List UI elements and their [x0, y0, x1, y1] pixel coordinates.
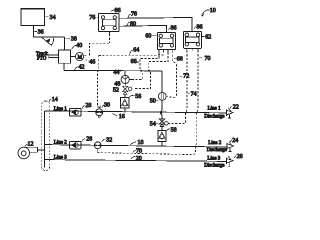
svg-text:62: 62 [205, 35, 211, 41]
svg-text:42: 42 [79, 65, 85, 71]
svg-text:32: 32 [106, 137, 112, 143]
label 70 (top) [199, 56, 211, 62]
label 30 [102, 103, 110, 109]
svg-text:Line 3: Line 3 [207, 157, 220, 162]
label 32 [102, 137, 113, 143]
svg-text:Line 2: Line 2 [54, 141, 67, 146]
blower 12 [18, 147, 44, 159]
label 56 [130, 94, 142, 100]
label 86 (box 62) [194, 24, 202, 30]
Line 3 pipe 20 [44, 160, 226, 162]
label 62 [202, 35, 212, 41]
discharge valve 26 [227, 156, 234, 166]
label 28 line 2 [82, 137, 92, 143]
svg-text:10: 10 [210, 8, 216, 14]
svg-text:54: 54 [150, 122, 156, 128]
Line 3 discharge labels [204, 157, 225, 169]
svg-text:M: M [78, 55, 83, 60]
svg-text:46: 46 [89, 59, 95, 65]
svg-text:74: 74 [191, 92, 197, 98]
check valve 28 line 1 [70, 109, 82, 117]
valve 32 [94, 142, 101, 153]
svg-text:38: 38 [71, 37, 77, 43]
svg-text:86: 86 [115, 8, 121, 14]
label 70 (bottom) [133, 149, 142, 155]
wire 80 [119, 25, 167, 32]
svg-text:PTO: PTO [37, 57, 47, 62]
svg-text:68: 68 [177, 56, 183, 62]
svg-text:28: 28 [85, 103, 91, 109]
wire pump to line 42 [63, 63, 65, 70]
control wire middle box to valve 30 [108, 32, 110, 35]
svg-text:28: 28 [86, 137, 92, 143]
svg-text:Line 3: Line 3 [54, 156, 67, 161]
label 50 [150, 99, 159, 105]
solenoid box 62 [184, 31, 202, 48]
check valve 28 line 2 [70, 141, 82, 149]
svg-text:70: 70 [136, 149, 142, 155]
label 12 [25, 141, 34, 147]
svg-text:14: 14 [52, 97, 58, 103]
wire 36 tank to filter [34, 26, 42, 37]
motor M 46 [71, 52, 84, 60]
Line 2 pipe 18 [44, 145, 227, 147]
svg-text:70: 70 [205, 56, 211, 62]
label 76 [89, 15, 98, 21]
valve 44 [121, 71, 132, 84]
label 16 [112, 113, 124, 120]
control wire 74 box 62 to valve 54 [187, 49, 192, 51]
label 36 [34, 29, 43, 35]
svg-text:34: 34 [50, 15, 56, 21]
label 40 [72, 43, 83, 49]
svg-text:26: 26 [237, 154, 243, 160]
regulator 56 [121, 94, 130, 112]
label 74 [188, 92, 197, 98]
wire 42 main air line [64, 69, 162, 72]
label 46 [86, 59, 96, 65]
control wire 64 junction to box 60 [99, 54, 164, 56]
svg-text:78: 78 [131, 12, 137, 18]
control wire 66 box 60 to valve 44 [158, 50, 160, 53]
label 38 [65, 37, 77, 43]
solenoid box 86 top middle [99, 14, 120, 32]
label 44 [113, 70, 120, 76]
label 20 [131, 156, 142, 162]
control wire motor riser [84, 43, 109, 56]
svg-text:80: 80 [130, 22, 136, 28]
figure number 10 [201, 8, 216, 16]
svg-text:72: 72 [183, 74, 189, 80]
svg-text:86: 86 [171, 26, 177, 32]
svg-text:48: 48 [114, 81, 120, 87]
label 24 [230, 138, 238, 144]
control wire 72 box 62 to valve 50 [171, 50, 173, 52]
svg-text:52: 52 [113, 88, 119, 94]
svg-text:16: 16 [119, 114, 125, 120]
pump 40 [59, 50, 71, 63]
svg-text:58: 58 [171, 128, 177, 134]
svg-text:18: 18 [138, 140, 144, 146]
svg-text:24: 24 [232, 138, 238, 144]
svg-text:76: 76 [89, 15, 95, 21]
svg-text:56: 56 [135, 94, 141, 100]
label 18 [131, 140, 144, 146]
svg-text:Discharge: Discharge [204, 163, 225, 168]
junction knots at line crossings [97, 70, 197, 148]
svg-text:Line 1: Line 1 [208, 107, 221, 112]
label 42 [74, 65, 84, 71]
valve 54 [159, 119, 170, 127]
tank 34 [21, 9, 45, 26]
PTO shaft [49, 54, 59, 59]
label 64 [129, 48, 139, 55]
label 80 [127, 22, 136, 28]
valve 30 [96, 107, 103, 117]
svg-text:Line 2: Line 2 [208, 141, 221, 146]
svg-text:44: 44 [113, 70, 119, 76]
label 86 (box 60) [168, 26, 176, 32]
svg-text:Line 1: Line 1 [54, 107, 67, 112]
label 34 [45, 15, 55, 21]
svg-text:66: 66 [131, 59, 137, 65]
svg-text:86: 86 [197, 24, 203, 30]
control wire 70 box 62 to valve 32 [197, 49, 199, 52]
label 52 [113, 88, 120, 94]
svg-text:36: 36 [38, 29, 44, 35]
valve 50 [158, 92, 167, 100]
discharge valve 22 [227, 108, 234, 118]
discharge valve 24 [227, 141, 234, 151]
wire 50 to 54 with hop over line 1 [160, 100, 162, 119]
svg-text:60: 60 [145, 34, 151, 40]
svg-text:50: 50 [150, 99, 156, 105]
Line 1 pipe 16 [44, 111, 226, 113]
svg-text:64: 64 [133, 48, 139, 54]
svg-text:Discharge: Discharge [204, 115, 225, 120]
svg-text:22: 22 [233, 105, 239, 111]
svg-text:20: 20 [136, 156, 142, 162]
Line 1 discharge labels [204, 107, 225, 120]
wire 78 [119, 18, 192, 32]
svg-text:30: 30 [104, 103, 110, 109]
label 48 [114, 81, 121, 87]
label 66 [131, 59, 139, 65]
wire 38 filter to pump [54, 37, 65, 50]
label 54 [150, 122, 159, 128]
label 72 [180, 74, 190, 80]
label 68 [174, 56, 183, 62]
label 28 line 1 [82, 103, 92, 109]
label 60 [145, 34, 156, 40]
label 14 [49, 97, 58, 103]
Line 2 discharge labels [207, 141, 228, 153]
Truck PTO label [36, 52, 48, 62]
valve 52 [123, 84, 132, 95]
svg-text:Discharge: Discharge [207, 148, 228, 153]
label 58 [167, 128, 177, 134]
regulator 58 [158, 127, 166, 147]
label 78 [128, 12, 137, 18]
label 26 [234, 154, 242, 160]
svg-text:40: 40 [76, 43, 82, 49]
filter 38 [41, 37, 54, 45]
label 22 [230, 105, 239, 111]
svg-text:12: 12 [28, 141, 34, 147]
manifold 14 [42, 101, 50, 171]
solenoid box 60 [158, 33, 176, 50]
wire 42 to valve 50 [161, 71, 163, 93]
control wire 68 box 60 to valve 52 [167, 50, 169, 53]
label 86 (middle box) [111, 8, 121, 14]
